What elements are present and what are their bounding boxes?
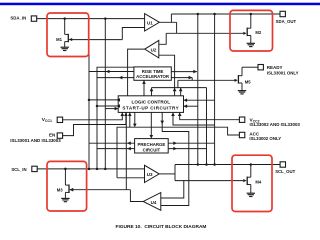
wire logic to RTA (142, 80, 146, 95)
svg-text:READY: READY (267, 65, 283, 70)
svg-text:VCC1: VCC1 (42, 117, 52, 123)
wire sda sense into logic (105, 107, 118, 111)
svg-text:LOGIC CONTROL: LOGIC CONTROL (132, 99, 171, 104)
wire VCC2 (178, 112, 240, 119)
wire SDA sense vertical (104, 18, 106, 169)
svg-text:M5: M5 (245, 80, 251, 85)
pad SDA_OUT (276, 11, 297, 23)
ground M3 (61, 198, 69, 201)
op-amp U2 (145, 40, 159, 58)
pad VCC2 (239, 117, 300, 127)
block LOGIC CONTROL START-UP CIRCUITRY (118, 96, 183, 113)
node top rail A (197, 13, 200, 16)
wire U3 lower input (117, 177, 145, 179)
red box M2 (230, 10, 273, 51)
node M2 drain (250, 13, 253, 16)
wire precharge left 1 (89, 141, 135, 145)
node SDA_IN/M1 drain (63, 17, 66, 20)
svg-text:U2: U2 (151, 47, 157, 52)
wire logic right in 1 (184, 98, 216, 102)
node top rail B (213, 13, 216, 16)
pad SCL_OUT (275, 162, 295, 174)
svg-text:M1: M1 (56, 37, 62, 42)
pad SCL_IN (11, 166, 37, 172)
transistor M1 (56, 19, 72, 48)
wire U2 lower stub (159, 55, 177, 96)
wire U1 out down (176, 22, 178, 33)
ground M4 (247, 193, 255, 196)
ground M2 (247, 43, 255, 46)
wire control rail (117, 127, 239, 178)
transistor M5 (235, 67, 252, 90)
red box M1 (47, 13, 89, 57)
wire M5 gate (178, 79, 237, 81)
node SCL_OUT A (197, 163, 200, 166)
svg-text:SCL_OUT: SCL_OUT (275, 169, 295, 174)
wire logic to M3 gate (125, 112, 127, 189)
op-amp U4 (143, 193, 161, 211)
pad EN (10, 133, 62, 143)
block PRECHARGE CIRCUIT (135, 139, 169, 153)
wire M5 rail down (206, 88, 208, 165)
wire precharge right 2 (168, 147, 206, 151)
svg-text:SCL_IN: SCL_IN (11, 167, 26, 172)
wire logic left out 2 (96, 104, 120, 108)
node SCL junction 1 (88, 168, 91, 171)
wire RTA left out 1 (89, 70, 134, 74)
svg-text:M4: M4 (255, 179, 261, 184)
transistor M2 (243, 14, 262, 43)
wire U1 out to top rail (170, 14, 172, 22)
wire M3 gate (70, 188, 131, 192)
wire bus vertical B (214, 14, 216, 165)
wire logic up C (179, 88, 183, 96)
wire M1 gate to U1 enable (122, 28, 144, 40)
wire U2 output down (128, 49, 145, 96)
wire EN (63, 112, 128, 135)
node M4 drain (250, 163, 253, 166)
wire READY (242, 66, 258, 68)
wire SDA_OUT top rail (171, 13, 250, 15)
node M3 drain tap (64, 168, 67, 171)
svg-text:ISL33002 ONLY: ISL33002 ONLY (249, 136, 281, 141)
svg-text:M2: M2 (255, 30, 261, 35)
ground M5 (238, 91, 246, 94)
wire RTA right out 2 (171, 76, 192, 80)
wire rail into logic (128, 112, 132, 127)
red box M3 (47, 161, 87, 211)
node SCL junction 3 (104, 168, 107, 171)
wire logic down to rail (133, 112, 137, 127)
wire logic to precharge (150, 112, 154, 138)
op-amp U3 (145, 165, 160, 182)
block RISE TIME ACCELERATOR (134, 67, 171, 80)
wire M4 gate (175, 180, 243, 182)
wire M5 rail (152, 87, 207, 89)
wire RTA feed (97, 67, 134, 169)
wire rail into logic right (171, 112, 214, 125)
wire logic right in 2 (184, 104, 199, 108)
wire RTA right out 1 (171, 70, 197, 74)
wire SCL_IN rail (37, 168, 144, 170)
svg-text:U3: U3 (147, 172, 153, 177)
svg-text:ISL33002 AND ISL33003: ISL33002 AND ISL33003 (250, 122, 301, 127)
transistor M3 (57, 169, 73, 199)
wire U3 output (159, 173, 175, 175)
node SCL_OUT B (205, 163, 208, 166)
wire U4 output (130, 190, 143, 202)
svg-text:SDA_IN: SDA_IN (10, 16, 26, 21)
svg-text:START-UP CIRCUITRY: START-UP CIRCUITRY (122, 106, 179, 111)
wire U4 input top (161, 181, 184, 198)
wire logic left out 1 (88, 98, 120, 102)
svg-text:ACCELERATOR: ACCELERATOR (136, 74, 170, 79)
transistor M4 (243, 165, 262, 194)
wire SDA_IN rail (37, 18, 145, 20)
wire to SDA_OUT pad (251, 13, 280, 15)
node SCL_OUT C (213, 163, 216, 166)
wire RTA out 2 to M5 gate (191, 78, 193, 81)
red box M4 (232, 155, 272, 211)
svg-text:ISL33001 AND ISL33003: ISL33001 AND ISL33003 (10, 138, 61, 143)
pad SDA_IN (10, 16, 36, 22)
node SCL junction 2 (96, 168, 99, 171)
pad ACC (239, 132, 281, 141)
wire precharge right 1 (168, 141, 214, 145)
wire RTA left out 2 (97, 76, 134, 80)
ground M1 (61, 47, 69, 50)
wire VCC1 (63, 112, 125, 119)
op-amp U1 (145, 14, 160, 31)
svg-text:SDA_OUT: SDA_OUT (276, 19, 297, 24)
wire logic up A (150, 88, 154, 96)
svg-text:CIRCUIT: CIRCUIT (143, 147, 161, 152)
wire SCL node vertical (174, 165, 176, 181)
wire SCL_OUT rail (175, 164, 280, 166)
node SDA_IN sense (104, 17, 107, 20)
pad VCC1 (42, 117, 63, 123)
svg-text:EN: EN (49, 133, 55, 138)
wire U1 output (159, 21, 176, 23)
svg-text:FIGURE 10. CIRCUIT BLOCK DIAG: FIGURE 10. CIRCUIT BLOCK DIAGRAM (116, 224, 207, 230)
svg-text:M3: M3 (57, 187, 63, 192)
svg-text:ISL33001 ONLY: ISL33001 ONLY (267, 70, 299, 75)
wire precharge left 2 (97, 147, 135, 151)
wire M1 gate branch down (88, 40, 90, 169)
svg-text:U1: U1 (147, 20, 153, 25)
svg-text:U4: U4 (151, 200, 157, 205)
wire SDA feedback rail (166, 32, 243, 34)
pad READY (258, 65, 299, 76)
wire M5 gate feed (177, 80, 179, 87)
caption (116, 224, 207, 230)
wire U2 input (159, 33, 166, 44)
wire M1 gate (69, 39, 122, 41)
wire bus vertical A (197, 14, 199, 165)
wire logic down right (160, 112, 188, 205)
